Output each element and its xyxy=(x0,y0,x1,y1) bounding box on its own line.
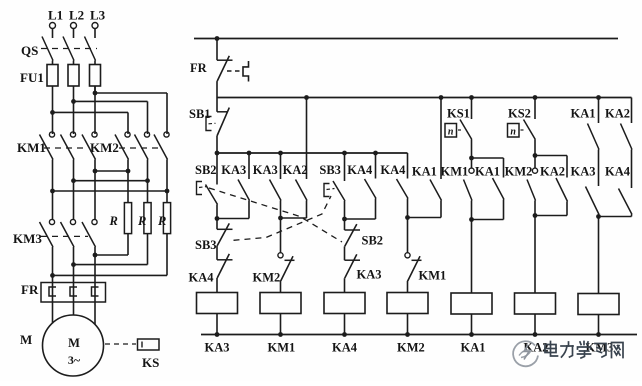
QS linkage dashed xyxy=(41,48,97,50)
wire link c3-c4 xyxy=(95,170,128,172)
wire b10 lower lead xyxy=(503,200,505,220)
junction bus3 tap x280 xyxy=(278,151,283,156)
wire bus after FR xyxy=(217,97,632,99)
svg-text:KA2: KA2 xyxy=(605,107,630,121)
svg-text:KS: KS xyxy=(142,355,159,370)
svg-text:KA1: KA1 xyxy=(475,165,500,179)
watermark logo xyxy=(513,341,538,366)
wire SB1 bottom lead xyxy=(216,136,218,154)
coil KA2 xyxy=(515,293,556,314)
svg-text:KA2: KA2 xyxy=(540,165,565,179)
junction b13 pair junction xyxy=(596,214,601,219)
junction bottom tap KA2 xyxy=(533,332,538,337)
wire pair3 jog xyxy=(345,218,376,220)
junction b11 bottom pair junction xyxy=(533,213,538,218)
junction bus3 tap x249 xyxy=(247,151,252,156)
svg-text:M: M xyxy=(20,332,32,347)
wire motor lead 2 xyxy=(73,302,75,316)
wire coil KA4 to bus xyxy=(344,314,346,335)
wire pair4 jog xyxy=(408,217,442,219)
junction b11 top pair junction xyxy=(533,153,538,158)
wire b14 top lead xyxy=(631,98,633,124)
wire coil KA3 to bus xyxy=(216,314,218,335)
svg-text:KM2: KM2 xyxy=(505,165,533,179)
wire R2 bottom lead xyxy=(147,234,149,265)
wire b9 below KS1 xyxy=(471,140,473,159)
junction b1 pair junction xyxy=(215,216,220,221)
svg-text:SB2: SB2 xyxy=(195,163,217,177)
svg-text:FU1: FU1 xyxy=(20,70,44,85)
wire KM2 c6 down xyxy=(166,160,168,192)
wire KM1 c1 down xyxy=(52,160,54,192)
wire coil KM2 to bus xyxy=(407,314,409,335)
wire b14 lower lead xyxy=(631,215,633,217)
relay contact KA4 (branch 14 lower, NO) xyxy=(619,189,633,215)
wire b8 upper lead xyxy=(440,98,442,180)
wire R1 bypass xyxy=(95,254,128,256)
svg-text:n: n xyxy=(510,127,516,138)
svg-text:SB1: SB1 xyxy=(189,107,211,121)
wire b13 mid lead xyxy=(598,150,600,187)
contactor KM2 main contact 1 xyxy=(125,132,130,137)
SB2 mechanical linkage dashed xyxy=(209,188,342,242)
svg-text:KA4: KA4 xyxy=(347,163,373,177)
wire R2 bypass xyxy=(74,264,148,266)
wire coil KA2 to bus xyxy=(534,314,536,335)
junction n5 xyxy=(50,189,55,194)
wire b1 to coil xyxy=(216,278,218,293)
relay contact KA3 (branch 13 lower, NO) xyxy=(586,187,600,215)
junction bus3 tap x375 xyxy=(373,151,378,156)
wire b13 lower lead xyxy=(598,215,600,217)
coil KM3 xyxy=(578,294,619,315)
wire coil KM1 to bus xyxy=(280,314,282,335)
svg-text:KM1: KM1 xyxy=(268,341,296,355)
svg-text:R: R xyxy=(109,214,118,228)
wire KM2 c5 down xyxy=(147,160,149,181)
KM2 linkage dashed xyxy=(119,147,160,149)
wire b4 upper lead xyxy=(306,98,308,180)
junction bus2 tap x535 xyxy=(533,95,538,100)
svg-text:KM2: KM2 xyxy=(90,140,119,155)
wire FR element 2 through xyxy=(73,283,75,303)
wire motor lead 3 xyxy=(94,302,96,325)
wire b11 to coil xyxy=(534,216,536,294)
svg-text:KA4: KA4 xyxy=(332,341,358,355)
wire R3 bottom lead xyxy=(166,234,168,276)
wire b6 lower lead xyxy=(375,199,377,220)
terminal L1 xyxy=(50,23,56,29)
junction bus2 tap x471 xyxy=(469,95,474,100)
junction b3 pair junction xyxy=(278,216,283,221)
svg-text:KA2: KA2 xyxy=(283,163,308,177)
svg-text:FR: FR xyxy=(21,282,39,297)
junction n1 xyxy=(93,169,98,174)
svg-text:FR: FR xyxy=(190,61,208,75)
coil KA4 xyxy=(324,293,365,314)
junction n6 xyxy=(165,189,170,194)
wire b5 upper lead xyxy=(344,153,346,181)
junction phase3 tap xyxy=(93,91,98,96)
wire pair6 bottom jog xyxy=(535,215,567,217)
wire fuse3 through xyxy=(94,61,96,94)
wire b12 lower lead xyxy=(566,202,568,216)
junction bus2 tap x306 xyxy=(304,95,309,100)
contactor KM1 main contact 3 xyxy=(92,132,97,137)
switch QS pole 1 xyxy=(42,37,53,61)
wire R1 bottom lead xyxy=(127,234,129,255)
svg-text:KS2: KS2 xyxy=(508,107,531,121)
wire b7 to coil xyxy=(407,282,409,293)
wire R3 bypass xyxy=(53,274,168,276)
wire pair5 top jog xyxy=(472,157,504,159)
junction n2 xyxy=(126,169,131,174)
svg-text:3~: 3~ xyxy=(68,353,81,367)
terminal L2 xyxy=(71,23,77,29)
wire KM3 c3 top xyxy=(94,171,96,220)
wire fuse1 through xyxy=(52,61,54,87)
wire b8 lower lead xyxy=(440,201,442,218)
wire phase1 down xyxy=(52,86,54,134)
svg-text:KM3: KM3 xyxy=(13,231,42,246)
wire link c2-c5 xyxy=(74,180,148,182)
wire b11 below KS2 xyxy=(534,140,536,156)
svg-text:KM2: KM2 xyxy=(397,341,425,355)
svg-text:L3: L3 xyxy=(90,8,106,23)
wire KM2 pole4 feed xyxy=(127,112,129,134)
wire b3 to coil xyxy=(280,282,282,293)
wire fuse2 through xyxy=(73,61,75,87)
svg-text:SB2: SB2 xyxy=(362,234,384,248)
wire KM3 c1 bottom xyxy=(52,247,54,283)
svg-text:SB3: SB3 xyxy=(319,163,341,177)
wire phase2 down xyxy=(73,86,75,134)
wire b3 upper lead xyxy=(280,153,282,179)
wire b9 to coil xyxy=(471,220,473,294)
thermal relay FR heater box xyxy=(41,283,106,303)
svg-text:QS: QS xyxy=(21,43,38,58)
wire KM2 c4 down xyxy=(127,160,129,172)
svg-text:KM1: KM1 xyxy=(441,165,469,179)
wire b9 to KM1 aux xyxy=(471,158,473,168)
junction bottom tap KA4 xyxy=(342,332,347,337)
wire coil KA1 to bus xyxy=(471,314,473,335)
wire L2 lead xyxy=(73,29,75,39)
svg-text:R: R xyxy=(157,214,166,228)
wire phase3 to KM2 pole6 xyxy=(95,92,167,94)
watermark text 电力学习网 xyxy=(545,342,623,359)
wire pair7 jog xyxy=(599,216,632,218)
wire KM3 c2 bottom xyxy=(73,247,75,283)
junction n4 xyxy=(145,178,150,183)
switch QS pole 2 xyxy=(63,37,74,61)
svg-text:KA1: KA1 xyxy=(571,107,596,121)
wire FR top lead xyxy=(216,39,218,61)
wire b11 to KM2 aux xyxy=(534,156,536,169)
junction n8 xyxy=(71,262,76,267)
contactor KM2 main contact 2 xyxy=(144,132,149,137)
wire b5 link xyxy=(344,246,346,260)
speed switch KS link dashed xyxy=(105,343,136,345)
wire b1 mid lead xyxy=(216,219,218,230)
svg-text:KS1: KS1 xyxy=(447,107,470,121)
wire b9 top lead xyxy=(471,98,473,120)
wire R1 top lead xyxy=(127,171,129,203)
junction n3 xyxy=(71,178,76,183)
wire KM3 c3 bottom xyxy=(94,247,96,283)
junction bottom tap KM1 xyxy=(278,332,283,337)
junction n9 xyxy=(50,273,55,278)
coil KA3 xyxy=(197,293,238,314)
contactor KM2 main contact 3 xyxy=(164,132,169,137)
junction bottom tap KA3 xyxy=(215,332,220,337)
junction bus2 tap x598 xyxy=(596,95,601,100)
motor M xyxy=(43,315,104,376)
svg-text:SB3: SB3 xyxy=(195,238,217,252)
svg-text:KA1: KA1 xyxy=(461,341,486,355)
wire L1 lead xyxy=(52,29,54,39)
FR trip linkage dashed xyxy=(227,70,242,72)
wire b3 mid lead xyxy=(280,218,282,253)
coil KM1 xyxy=(260,293,301,314)
svg-text:KA4: KA4 xyxy=(189,271,215,285)
wire phase2 to KM2 pole5 xyxy=(74,100,148,102)
wire b13 top lead xyxy=(598,98,600,124)
junction bottom tap KA1 xyxy=(469,332,474,337)
wire phase1 to KM2 pole4 xyxy=(53,111,129,113)
svg-text:KA4: KA4 xyxy=(605,165,631,179)
svg-text:KA3: KA3 xyxy=(221,163,246,177)
wire b2 upper lead xyxy=(248,153,250,179)
svg-text:M: M xyxy=(68,336,80,350)
svg-text:KA3: KA3 xyxy=(571,165,596,179)
junction bus1-FR tap xyxy=(215,36,220,41)
svg-text:KM2: KM2 xyxy=(253,271,281,285)
wire L3 lead xyxy=(94,29,96,39)
wire b1 upper lead xyxy=(216,153,218,185)
wire b5 below SB3 xyxy=(344,201,346,219)
svg-text:KM1: KM1 xyxy=(17,140,46,155)
junction b9 top pair junction xyxy=(469,156,474,161)
wire KM3 c1 top xyxy=(52,191,54,220)
terminal L3 xyxy=(92,23,98,29)
wire KM3 c2 top xyxy=(73,181,75,220)
wire bus L1 (top rail) xyxy=(194,38,618,40)
wire pair2 jog xyxy=(281,217,307,219)
junction bottom tap KM3 xyxy=(596,332,601,337)
wire motor lead 1 xyxy=(52,302,54,324)
wire KM1 c2 down xyxy=(73,160,75,181)
svg-text:KA3: KA3 xyxy=(253,163,278,177)
svg-text:L1: L1 xyxy=(48,8,63,23)
wire b7 upper lead xyxy=(407,153,409,179)
wire b1 link xyxy=(216,246,218,260)
wire FR element 3 through xyxy=(94,283,96,303)
junction bus2 tap x441 xyxy=(439,95,444,100)
svg-text:KA3: KA3 xyxy=(205,341,230,355)
junction bottom tap KM2 xyxy=(405,332,410,337)
junction phase2 tap xyxy=(71,99,76,104)
svg-text:R: R xyxy=(137,214,146,228)
wire R3 top lead xyxy=(166,191,168,203)
coil KA1 xyxy=(451,293,492,314)
svg-text:KM1: KM1 xyxy=(419,269,447,283)
junction b5 pair junction xyxy=(342,217,347,222)
junction b7 pair junction xyxy=(405,215,410,220)
svg-text:KA1: KA1 xyxy=(412,165,437,179)
wire b5 to coil xyxy=(344,278,346,292)
FR heater element 3 xyxy=(92,287,99,296)
wire KM1 c3 down xyxy=(94,160,96,172)
wire R2 top lead xyxy=(147,181,149,203)
SB3 mechanical linkage dashed xyxy=(234,196,332,240)
wire FR bottom lead xyxy=(216,81,218,97)
junction n7 xyxy=(93,253,98,258)
wire b1 below SB2 xyxy=(216,205,218,219)
wire pair1 jog xyxy=(217,218,249,220)
speed switch KS xyxy=(138,339,160,350)
wire b13 to coil xyxy=(598,217,600,294)
junction bus3 tap x344 xyxy=(342,151,347,156)
wire KM2 pole6 feed xyxy=(166,93,168,134)
wire b4 lower lead xyxy=(306,201,308,219)
wire KM2 pole5 feed xyxy=(147,101,149,134)
wire FR element 1 through xyxy=(52,283,54,303)
wire pair6 top jog xyxy=(535,155,567,157)
wire b5 mid lead xyxy=(344,219,346,230)
svg-text:KA4: KA4 xyxy=(380,163,406,177)
wire b3 lower lead xyxy=(280,201,282,219)
wire b2 lower lead xyxy=(248,201,250,219)
FR heater element 1 xyxy=(49,287,56,296)
wire b14 mid lead xyxy=(631,150,633,189)
wire b6 upper lead xyxy=(375,153,377,179)
wire phase3 down xyxy=(94,86,96,134)
junction b9 bottom pair junction xyxy=(469,217,474,222)
FR trip element symbol xyxy=(243,61,249,82)
wire coil KM3 to bus xyxy=(598,315,600,335)
KM1 linkage dashed xyxy=(44,147,88,149)
coil KM2 xyxy=(387,293,428,314)
KM3 linkage dashed xyxy=(41,235,88,237)
FR heater element 2 xyxy=(70,287,77,296)
wire b10 upper lead xyxy=(503,158,505,178)
svg-text:n: n xyxy=(448,127,454,138)
wire link c1-c6 xyxy=(53,190,168,192)
wire SB1 top lead xyxy=(216,98,218,112)
junction bus3 left end xyxy=(215,151,220,156)
wire b12 upper lead xyxy=(566,156,568,178)
contactor KM1 main contact 2 xyxy=(70,132,75,137)
wire b7 lower lead xyxy=(407,199,409,218)
wire b7 mid lead xyxy=(407,218,409,253)
contactor KM1 main contact 1 xyxy=(49,132,54,137)
wire pair5 bottom jog xyxy=(472,219,504,221)
switch QS pole 3 xyxy=(85,37,96,61)
wire bottom rail xyxy=(201,334,637,336)
svg-text:L2: L2 xyxy=(69,8,84,23)
wire b11 top lead xyxy=(534,98,536,120)
wire bus after SB1 xyxy=(217,152,408,154)
junction phase1 tap xyxy=(50,110,55,115)
wire b9 lower lead xyxy=(471,201,473,220)
wire b11 lower lead xyxy=(534,201,536,216)
svg-text:KA3: KA3 xyxy=(357,268,382,282)
